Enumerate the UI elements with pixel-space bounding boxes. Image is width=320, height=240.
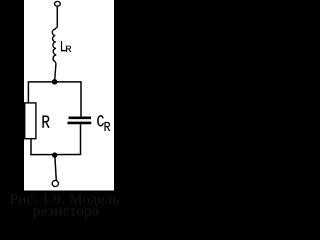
wire resistor feed top [27,81,29,102]
wire top terminal to inductor [56,6,58,26]
inductor L_R coil [52,27,57,80]
wire bottom horizontal [30,154,80,156]
capacitor C_R top plate [69,117,92,120]
node A (top junction dot) [52,79,58,85]
resistor R box [25,103,36,139]
wire top horizontal [28,81,81,83]
terminal T2 (bottom) [52,180,58,186]
wire capacitor feed top [80,81,82,116]
svg-text:резистора: резистора [33,203,99,219]
label L_R [61,41,66,51]
node B (bottom junction dot) [52,152,57,157]
wire bottom junction to terminal [55,157,56,181]
wire capacitor feed bottom [80,124,82,155]
wire resistor feed bottom [30,139,32,156]
label C_R [97,115,104,126]
capacitor C_R bottom plate [68,122,92,125]
terminal T1 (top) [55,1,61,6]
label R [43,116,50,128]
white schematic panel [24,0,114,191]
black scan background [0,0,138,232]
